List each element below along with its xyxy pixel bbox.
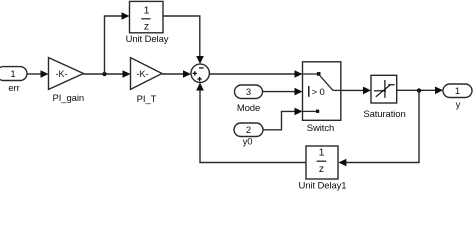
svg-text:z: z — [319, 163, 324, 175]
svg-text:Unit Delay: Unit Delay — [126, 34, 169, 45]
wire Unit Delay to sum top — [163, 16, 200, 59]
arrowhead into Saturation — [363, 87, 371, 95]
svg-text:-K-: -K- — [56, 69, 68, 79]
input port 3 (Mode) — [235, 85, 263, 99]
svg-text:1: 1 — [455, 86, 460, 97]
switch block — [303, 62, 341, 121]
svg-text:> 0: > 0 — [312, 87, 325, 98]
wire PI_T to sum — [162, 73, 186, 75]
svg-text:Switch: Switch — [307, 123, 334, 134]
arrowhead into PI_T — [123, 70, 131, 78]
sum block — [191, 64, 209, 82]
wire feedback down to Unit Delay1 — [344, 90, 419, 162]
svg-text:1: 1 — [144, 5, 150, 17]
block Unit Delay (1/z) — [130, 1, 164, 32]
svg-text:Unit Delay1: Unit Delay1 — [298, 181, 346, 192]
arrowhead into Unit Delay — [122, 12, 130, 20]
arrowhead into output port y — [435, 87, 443, 95]
svg-text:PI_T: PI_T — [137, 94, 157, 105]
arrowhead into sum bottom — [196, 83, 204, 91]
arrowhead into sum left — [183, 70, 191, 78]
svg-text:2: 2 — [246, 125, 251, 136]
wire sum to switch input 1 — [209, 73, 297, 75]
input port 2 (y0) — [234, 123, 263, 137]
arrowhead into sum top — [196, 56, 204, 64]
junction node at branch to Unit Delay — [102, 72, 106, 76]
wire y0 to switch input 3 — [263, 111, 297, 129]
svg-text:PI_gain: PI_gain — [53, 93, 85, 104]
svg-text:z: z — [144, 21, 149, 33]
arrowhead into PI_gain — [41, 70, 49, 78]
svg-text:err: err — [8, 83, 19, 94]
wire branch up to Unit Delay — [105, 16, 125, 74]
svg-text:y: y — [456, 100, 461, 111]
svg-text:y0: y0 — [243, 136, 253, 147]
junction node after Saturation — [417, 88, 421, 92]
wire PI_gain to PI_T — [84, 73, 126, 75]
svg-text:1: 1 — [319, 146, 325, 158]
gain PI_gain — [49, 58, 84, 90]
arrowhead into Unit Delay1 right side — [338, 159, 346, 167]
svg-text:Mode: Mode — [237, 103, 260, 114]
svg-text:-K-: -K- — [137, 69, 149, 79]
svg-text:3: 3 — [246, 87, 251, 98]
arrowhead into switch input 3 — [295, 108, 303, 116]
svg-text:1: 1 — [10, 69, 15, 80]
wire switch to Saturation — [341, 89, 365, 91]
wire Unit Delay1 to sum bottom — [200, 88, 306, 163]
arrowhead into switch input 1 — [295, 70, 303, 78]
svg-text:Saturation: Saturation — [363, 109, 405, 120]
input port 1 (err) — [0, 67, 27, 81]
block Saturation — [371, 75, 397, 103]
wire err to PI_gain — [27, 73, 43, 75]
block Unit Delay1 (1/z) — [306, 146, 338, 179]
arrowhead into switch input 2 — [295, 88, 303, 96]
output port 1 (y) — [443, 84, 472, 98]
wire Mode to switch input 2 — [263, 91, 298, 93]
gain PI_T — [131, 58, 163, 90]
wire Saturation to output port y — [397, 89, 437, 91]
